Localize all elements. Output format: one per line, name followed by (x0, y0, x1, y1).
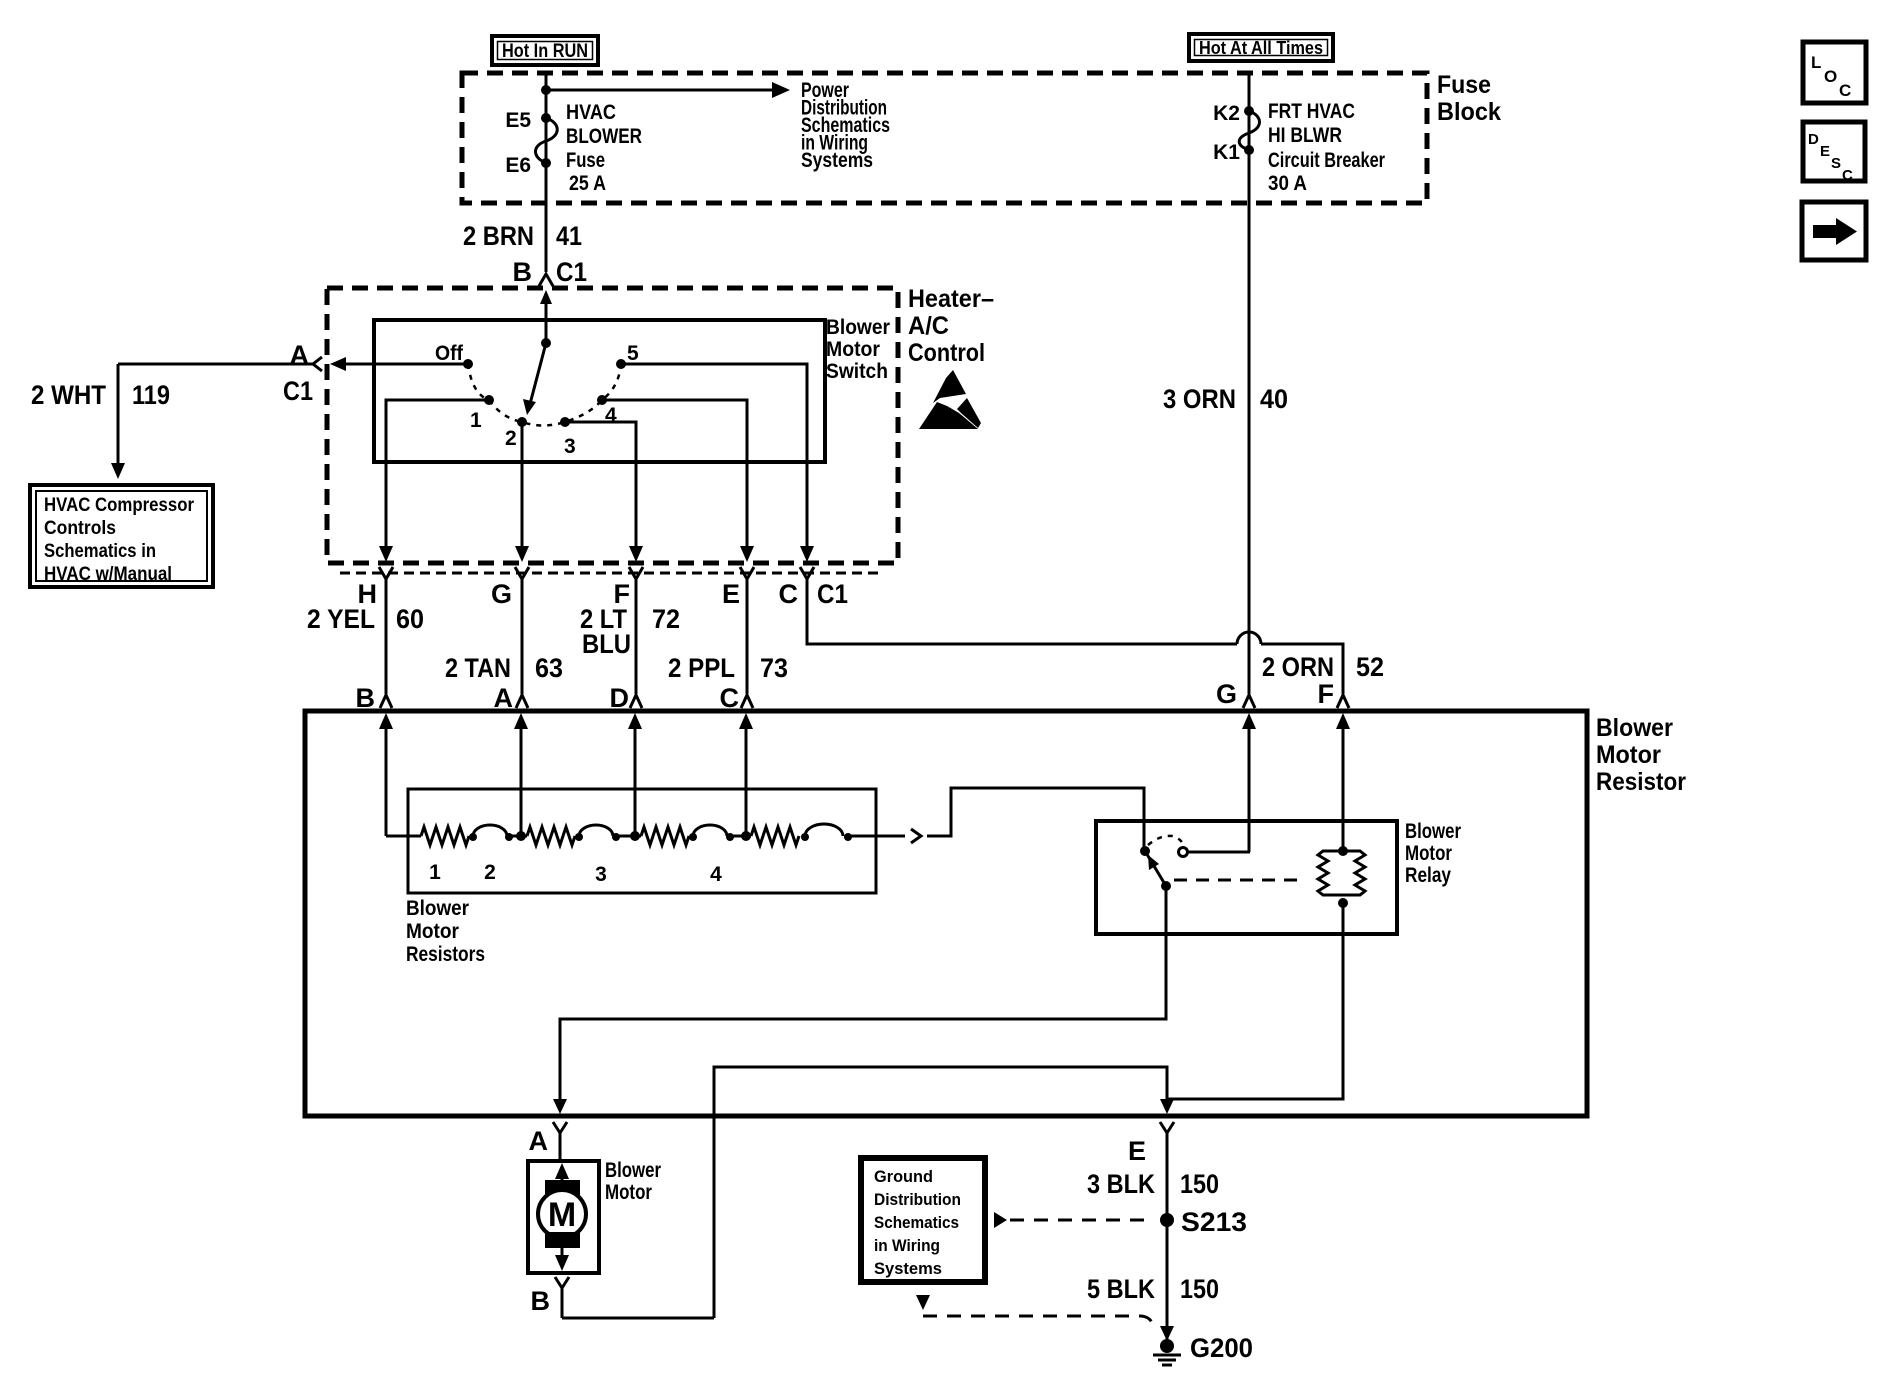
Heater-A/C Control dashed box (327, 288, 898, 563)
svg-text:60: 60 (396, 604, 424, 634)
blower motor switch name label (826, 316, 890, 383)
connector fork F (629, 567, 643, 579)
svg-text:E: E (1128, 1136, 1146, 1166)
svg-text:FRT HVAC: FRT HVAC (1268, 100, 1355, 123)
svg-text:Distribution: Distribution (874, 1190, 961, 1209)
svg-text:BLU: BLU (582, 629, 631, 659)
svg-text:Switch: Switch (826, 360, 888, 383)
svg-text:3: 3 (595, 863, 607, 886)
fuse block name label (1437, 71, 1501, 126)
ground distribution note box (861, 1158, 985, 1282)
connector fork A below resistor box (553, 1122, 567, 1161)
fuse block dashed box (462, 73, 1427, 203)
internal entry arrow and wire G (1242, 713, 1256, 852)
svg-text:2: 2 (505, 427, 517, 450)
svg-text:L: L (1811, 53, 1821, 72)
wire arrow branch to Power Distribution (546, 82, 790, 98)
svg-text:Resistor: Resistor (1596, 768, 1686, 796)
relay dashed throw arc (1148, 836, 1183, 845)
svg-text:2: 2 (484, 861, 496, 884)
svg-text:119: 119 (132, 380, 170, 410)
svg-text:2 BRN: 2 BRN (463, 221, 534, 251)
svg-text:HVAC Compressor: HVAC Compressor (44, 495, 195, 516)
connector fork H (379, 567, 393, 579)
svg-text:A/C: A/C (908, 312, 949, 340)
switch wiper pivot node (541, 338, 551, 348)
svg-text:C: C (779, 579, 799, 609)
next-page arrow icon box (1802, 202, 1866, 260)
svg-text:Schematics in: Schematics in (44, 541, 156, 562)
blower motor resistor name label (1596, 714, 1686, 796)
svg-text:G: G (1216, 679, 1237, 709)
svg-text:Blower: Blower (1596, 714, 1673, 742)
wire from contact 2 to terminal G (515, 422, 529, 562)
svg-text:Circuit Breaker: Circuit Breaker (1268, 149, 1385, 172)
svg-text:Off: Off (435, 342, 464, 365)
inline splice connector (911, 829, 921, 843)
wire from contact 3 to terminal F (565, 422, 643, 562)
contact 1 (484, 395, 494, 405)
wire label 2 BRN 41 (463, 221, 582, 251)
svg-text:Motor: Motor (1405, 842, 1452, 865)
svg-text:C1: C1 (817, 579, 848, 609)
svg-text:Blower: Blower (1405, 820, 1461, 843)
fuse F1 HVAC BLOWER 25A symbol (535, 113, 557, 168)
svg-text:150: 150 (1180, 1169, 1219, 1199)
svg-text:C: C (1839, 81, 1851, 100)
switch detent dashed arc (468, 364, 621, 426)
svg-text:Schematics: Schematics (874, 1213, 959, 1232)
blower motor relay name label (1405, 820, 1461, 887)
wire NO contact to terminal G (1188, 851, 1250, 854)
connector fork G (515, 567, 529, 579)
wire 2 WHT 119 to compressor controls (111, 364, 313, 479)
svg-text:Controls: Controls (44, 518, 116, 539)
svg-text:Fuse: Fuse (1437, 71, 1491, 99)
svg-text:Motor: Motor (605, 1181, 652, 1204)
contact 2 (517, 417, 527, 427)
svg-text:Blower: Blower (826, 316, 890, 339)
connector fork F on resistor box (1337, 695, 1349, 708)
svg-text:Systems: Systems (874, 1259, 942, 1278)
svg-text:HVAC w/Manual: HVAC w/Manual (44, 564, 172, 585)
HVAC Compressor Controls note box (30, 485, 213, 587)
svg-text:40: 40 (1260, 384, 1288, 414)
wire label 3 BLK 150 (1087, 1169, 1219, 1199)
tap junction node A (516, 831, 526, 841)
wire from Off contact to connector A (330, 357, 468, 371)
svg-text:Resistors: Resistors (406, 943, 485, 966)
svg-text:73: 73 (760, 653, 788, 683)
wire label 3 ORN 40 (1163, 384, 1288, 414)
contact 4 (597, 395, 607, 405)
circuit breaker CB1 FRT HVAC HI BLWR 30A symbol (1239, 106, 1259, 155)
svg-text:2 PPL: 2 PPL (668, 653, 735, 683)
relay coil (1318, 846, 1365, 908)
relay common pivot node (1140, 846, 1150, 856)
internal entry arrow and wire F (1336, 713, 1350, 851)
contact labels (435, 342, 639, 458)
ground G200 symbol (1153, 1326, 1181, 1365)
connector fork G on resistor box (1243, 695, 1255, 708)
wire from Hot At All Times down through breaker (1248, 73, 1251, 694)
svg-text:1: 1 (470, 409, 482, 432)
svg-text:D: D (1808, 131, 1819, 148)
svg-text:41: 41 (556, 221, 582, 251)
connector fork A on resistor box (516, 695, 528, 708)
connector fork C (800, 567, 814, 579)
svg-text:Block: Block (1437, 98, 1501, 126)
blower motor resistor outer box (305, 711, 1587, 1116)
wire label 2 WHT 119 (31, 380, 170, 410)
blower motor name label (605, 1159, 661, 1204)
switch feed wire with entry arrow (540, 290, 552, 343)
svg-text:2 YEL: 2 YEL (307, 604, 375, 634)
relay movable arm (1145, 851, 1166, 886)
svg-text:2 TAN: 2 TAN (445, 653, 511, 683)
internal entry arrow and wire C (739, 713, 753, 836)
svg-text:1: 1 (429, 861, 441, 884)
svg-text:S213: S213 (1181, 1207, 1247, 1237)
svg-text:E: E (722, 579, 740, 609)
svg-text:C1: C1 (283, 376, 313, 406)
svg-text:Hot In RUN: Hot In RUN (502, 41, 588, 62)
wire from splice to relay common (927, 788, 1144, 848)
DESC icon box (1803, 122, 1865, 184)
wire relay arm to motor feed A (553, 886, 1166, 1114)
svg-text:150: 150 (1180, 1274, 1219, 1304)
terminal letter labels H G F E C C1 (358, 579, 849, 609)
internal entry arrow and wire B (379, 713, 393, 836)
resistor chain with taps (386, 824, 905, 845)
svg-text:4: 4 (605, 404, 617, 427)
svg-text:Hot At All Times: Hot At All Times (1199, 38, 1323, 58)
wire from contact 5 to terminal C (621, 364, 814, 562)
svg-text:G200: G200 (1190, 1333, 1253, 1363)
blower motor relay box (1096, 821, 1397, 934)
wire label 5 BLK 150 (1087, 1274, 1219, 1304)
wire F to D with label 2 LT BLU 72 (635, 579, 638, 694)
relay NO contact circle (1179, 848, 1188, 857)
connector fork A C1 (313, 357, 322, 371)
svg-text:B: B (513, 257, 533, 287)
Heater A/C Control name label (908, 285, 994, 367)
relay coil mechanical dashed link (1174, 879, 1306, 882)
ESD sensitive device symbol (919, 370, 981, 429)
svg-text:5 BLK: 5 BLK (1087, 1274, 1155, 1304)
wire motor return B to terminal E (714, 1067, 1174, 1318)
contact 3 (560, 417, 570, 427)
connector C1 dashed line (340, 572, 878, 575)
svg-text:Control: Control (908, 339, 985, 367)
contact Off (463, 359, 473, 369)
svg-text:Blower: Blower (605, 1159, 661, 1182)
svg-text:Blower: Blower (406, 897, 469, 920)
svg-text:C: C (1842, 167, 1853, 184)
svg-text:BLOWER: BLOWER (566, 125, 642, 148)
wire from contact 1 to terminal H (379, 400, 489, 562)
resistor number labels 1 2 3 4 (429, 861, 722, 886)
internal entry arrow and wire A (514, 713, 528, 836)
svg-text:C1: C1 (556, 257, 587, 287)
fuse value label (566, 101, 642, 195)
svg-text:M: M (548, 1196, 576, 1234)
svg-text:F: F (1318, 679, 1335, 709)
svg-text:K1: K1 (1213, 141, 1240, 164)
svg-text:63: 63 (535, 653, 563, 683)
svg-text:2 ORN: 2 ORN (1262, 652, 1334, 682)
blower motor resistors label (406, 897, 485, 966)
svg-text:Motor: Motor (826, 338, 880, 361)
tap junction node C (741, 831, 751, 841)
internal entry arrow and wire D (628, 713, 642, 836)
wire G to A with label 2 TAN 63 (521, 579, 524, 694)
LOC icon box (1803, 42, 1866, 103)
connector fork B below motor (555, 1277, 569, 1318)
svg-text:E: E (1820, 143, 1830, 160)
blower motor box (528, 1161, 599, 1273)
wire from contact 4 to terminal E (602, 400, 754, 562)
svg-text:G: G (491, 579, 512, 609)
svg-text:Motor: Motor (1596, 741, 1661, 769)
svg-text:52: 52 (1356, 652, 1384, 682)
dashed reference to splice S213 (994, 1212, 1152, 1228)
svg-text:Relay: Relay (1405, 864, 1451, 887)
splice node S213 (1160, 1213, 1174, 1227)
connector fork D on resistor box (630, 695, 642, 708)
relay arm contact node (1161, 881, 1171, 891)
svg-text:3 ORN: 3 ORN (1163, 384, 1236, 414)
svg-text:Heater–: Heater– (908, 285, 994, 313)
wire C to F with label 2 ORN 52 and crossover hop (807, 579, 1343, 694)
resistor pack box (408, 789, 876, 893)
svg-text:O: O (1824, 67, 1837, 86)
wire motor B return (562, 1317, 714, 1320)
connector pin B C1 label (513, 257, 588, 287)
svg-text:A: A (529, 1126, 549, 1156)
breaker value label (1268, 100, 1385, 195)
connector fork C on resistor box (741, 695, 753, 708)
connector pin A C1 label (283, 340, 313, 406)
switch wiper arm (523, 343, 546, 415)
resistor box terminal labels B A D C G F (356, 679, 1335, 713)
contact 5 (616, 359, 626, 369)
svg-text:Ground: Ground (874, 1167, 933, 1186)
blower motor switch box (374, 320, 825, 462)
svg-text:72: 72 (652, 604, 680, 634)
wire from Hot In RUN down through fuse (545, 73, 548, 272)
label box "Hot At All Times" (1189, 34, 1333, 61)
svg-text:HVAC: HVAC (566, 101, 616, 124)
wire coil to terminal E junction (1167, 903, 1343, 1099)
svg-text:Fuse: Fuse (566, 149, 605, 172)
motor M1 symbol (538, 1163, 586, 1271)
connector fork B on resistor box (380, 695, 392, 708)
svg-text:E5: E5 (505, 109, 531, 132)
svg-text:Systems: Systems (801, 149, 873, 172)
svg-text:K2: K2 (1213, 102, 1240, 125)
svg-text:E6: E6 (505, 154, 531, 177)
wire E to C with label 2 PPL 73 (746, 579, 749, 694)
svg-text:S: S (1831, 155, 1841, 172)
connector fork E (740, 567, 754, 579)
connector fork E below resistor box (1160, 1122, 1174, 1341)
svg-text:25 A: 25 A (569, 172, 606, 195)
tap junction node D (630, 831, 640, 841)
label box "Hot In RUN" (492, 36, 598, 65)
svg-text:2 WHT: 2 WHT (31, 380, 106, 410)
dashed reference from note box to ground wire (916, 1295, 1153, 1325)
svg-text:30 A: 30 A (1268, 172, 1307, 195)
svg-text:Motor: Motor (406, 920, 459, 943)
connector fork at B C1 (539, 274, 553, 286)
svg-text:3 BLK: 3 BLK (1087, 1169, 1155, 1199)
svg-text:3: 3 (564, 435, 576, 458)
wire H to B with label 2 YEL 60 (385, 579, 388, 694)
svg-text:B: B (531, 1286, 551, 1316)
svg-text:4: 4 (710, 863, 722, 886)
junction node on fuse feed (541, 85, 551, 95)
svg-text:5: 5 (627, 342, 639, 365)
svg-text:HI BLWR: HI BLWR (1268, 124, 1342, 147)
svg-text:in Wiring: in Wiring (874, 1236, 940, 1255)
note text Power Distribution Schematics (801, 79, 890, 172)
